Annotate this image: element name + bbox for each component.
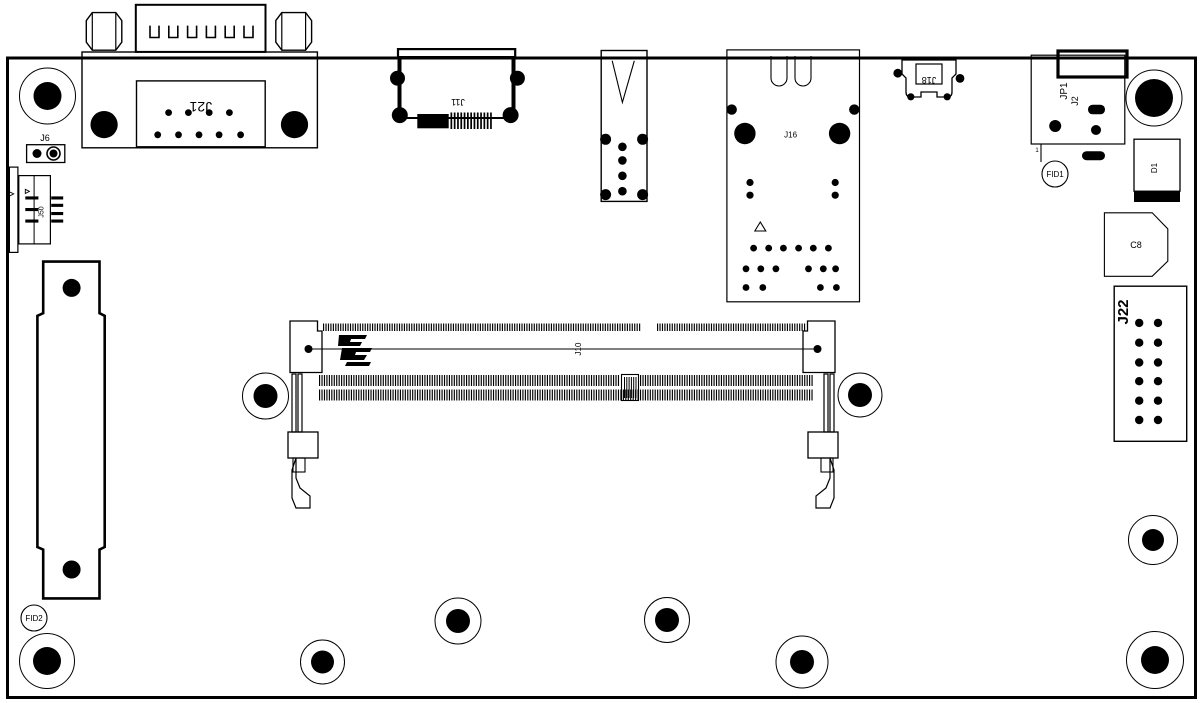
capacitor C8 <box>1104 213 1167 276</box>
svg-text:J2: J2 <box>1070 96 1080 106</box>
connector J21 body <box>82 52 317 148</box>
mounting hole bottom J15-right <box>435 598 481 644</box>
connector J10 latch left <box>288 374 318 508</box>
mounting hole top-left <box>20 68 76 124</box>
connector J51 left slot <box>37 262 104 599</box>
svg-text:J10: J10 <box>574 342 583 355</box>
connector J17 USB <box>600 51 648 202</box>
svg-text:FID2: FID2 <box>25 614 43 623</box>
svg-text:J50: J50 <box>39 206 46 217</box>
connector J2 power jack <box>1031 51 1127 162</box>
connector J18 mini-USB <box>893 60 964 100</box>
fiducial FID1 <box>1042 161 1068 187</box>
svg-text:JP1: JP1 <box>1059 82 1070 100</box>
connector J22 <box>1114 286 1187 441</box>
svg-text:J16: J16 <box>784 130 797 139</box>
svg-text:J22: J22 <box>1115 299 1132 324</box>
mounting hole bottom-left <box>20 634 75 689</box>
mounting hole right-lower <box>1129 516 1178 565</box>
mounting hole bottom mid-right <box>776 636 828 688</box>
fiducial FID2 <box>21 605 47 631</box>
connector J16 ethernet <box>727 50 860 302</box>
connector J21 shell <box>136 5 266 52</box>
connector J10 SODIMM <box>290 321 835 401</box>
svg-text:J18: J18 <box>922 75 937 85</box>
mounting hole top-right <box>1126 70 1182 126</box>
svg-text:J11: J11 <box>451 97 465 107</box>
svg-text:FID1: FID1 <box>1046 170 1064 179</box>
diode D1 <box>1134 139 1180 202</box>
connector J6 <box>27 133 65 163</box>
mounting hole mid-right <box>838 373 882 417</box>
mounting hole bottom S3-right <box>301 640 345 684</box>
connector J10 latch right <box>808 374 838 508</box>
mounting hole mid-left <box>243 373 289 419</box>
mounting hole bottom-center <box>645 598 690 643</box>
connector J21 jack screw right <box>276 13 312 51</box>
connector J11 <box>390 49 525 129</box>
mounting hole bottom-right <box>1127 632 1184 689</box>
svg-text:J6: J6 <box>40 133 50 143</box>
svg-text:D1: D1 <box>1150 162 1159 173</box>
connector J50 left edge <box>9 167 63 252</box>
connector J21 jack screw left <box>86 13 122 51</box>
svg-text:C8: C8 <box>1130 240 1142 250</box>
